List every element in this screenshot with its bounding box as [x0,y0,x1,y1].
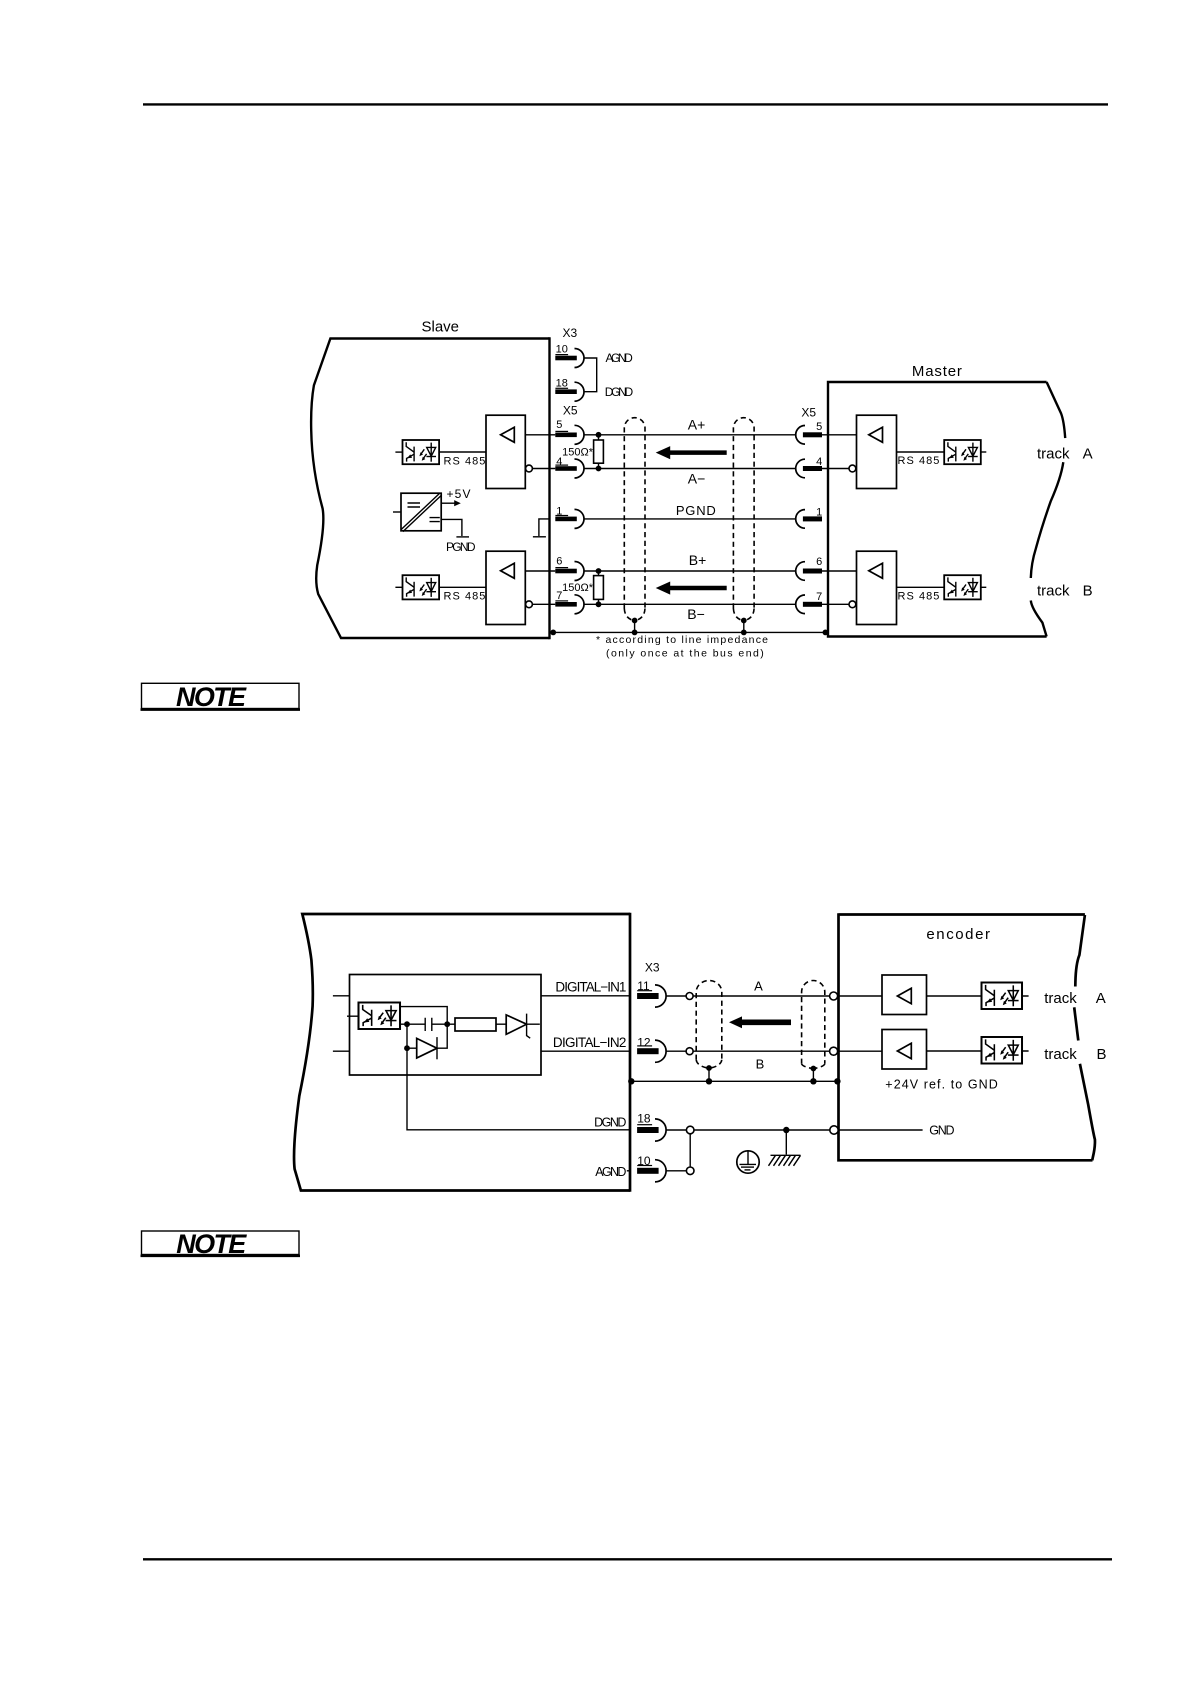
svg-text:4: 4 [816,456,822,468]
svg-text:5: 5 [556,419,562,431]
svg-text:11: 11 [637,979,650,993]
svg-text:12: 12 [637,1036,651,1050]
svg-text:7: 7 [816,591,822,603]
svg-text:B+: B+ [689,552,707,568]
svg-text:Slave: Slave [422,319,460,336]
svg-text:Master: Master [912,363,962,380]
svg-text:150Ω*: 150Ω* [562,582,594,594]
svg-text:X5: X5 [801,406,816,420]
svg-text:X3: X3 [645,961,660,975]
svg-text:B: B [1083,582,1093,599]
svg-text:DIGITAL−IN2: DIGITAL−IN2 [553,1035,627,1050]
svg-text:RS 485: RS 485 [898,455,940,467]
svg-text:X5: X5 [563,403,578,417]
svg-text:AGND: AGND [606,351,634,365]
svg-text:DIGITAL−IN1: DIGITAL−IN1 [555,980,626,995]
svg-text:(only once at the bus end): (only once at the bus end) [606,648,764,660]
svg-text:DGND: DGND [605,385,634,399]
svg-text:+5V: +5V [447,487,471,501]
svg-text:B: B [756,1057,765,1072]
svg-text:1: 1 [816,506,822,518]
svg-text:GND: GND [929,1123,954,1137]
svg-text:1: 1 [556,505,562,517]
svg-text:5: 5 [816,421,822,433]
svg-text:B−: B− [687,606,705,622]
svg-text:6: 6 [556,555,562,567]
svg-text:18: 18 [637,1112,651,1126]
svg-text:RS 485: RS 485 [898,590,940,602]
svg-text:PGND: PGND [446,540,476,554]
svg-text:A: A [754,979,763,994]
svg-text:RS 485: RS 485 [444,590,486,602]
svg-text:PGND: PGND [676,503,716,518]
svg-text:track: track [1037,445,1070,462]
svg-text:10: 10 [556,344,568,356]
svg-text:track: track [1044,990,1077,1007]
svg-text:RS 485: RS 485 [444,455,486,467]
svg-text:NOTE: NOTE [176,682,247,712]
svg-text:+24V ref. to GND: +24V ref. to GND [885,1077,998,1091]
svg-text:NOTE: NOTE [176,1229,247,1259]
svg-text:* according to line impedance: * according to line impedance [596,634,768,646]
svg-text:AGND: AGND [595,1165,626,1179]
svg-text:B: B [1097,1046,1107,1063]
svg-text:18: 18 [556,378,568,390]
svg-text:6: 6 [816,556,822,568]
svg-text:A: A [1096,990,1106,1007]
svg-text:A−: A− [688,471,706,487]
svg-text:track: track [1037,582,1070,599]
svg-text:DGND: DGND [594,1115,626,1129]
svg-text:150Ω*: 150Ω* [562,446,594,458]
svg-text:X3: X3 [563,326,578,340]
svg-text:A+: A+ [688,416,706,432]
svg-text:encoder: encoder [926,926,990,943]
svg-text:A: A [1083,445,1093,462]
svg-text:track: track [1044,1046,1077,1063]
svg-text:10: 10 [637,1154,651,1168]
